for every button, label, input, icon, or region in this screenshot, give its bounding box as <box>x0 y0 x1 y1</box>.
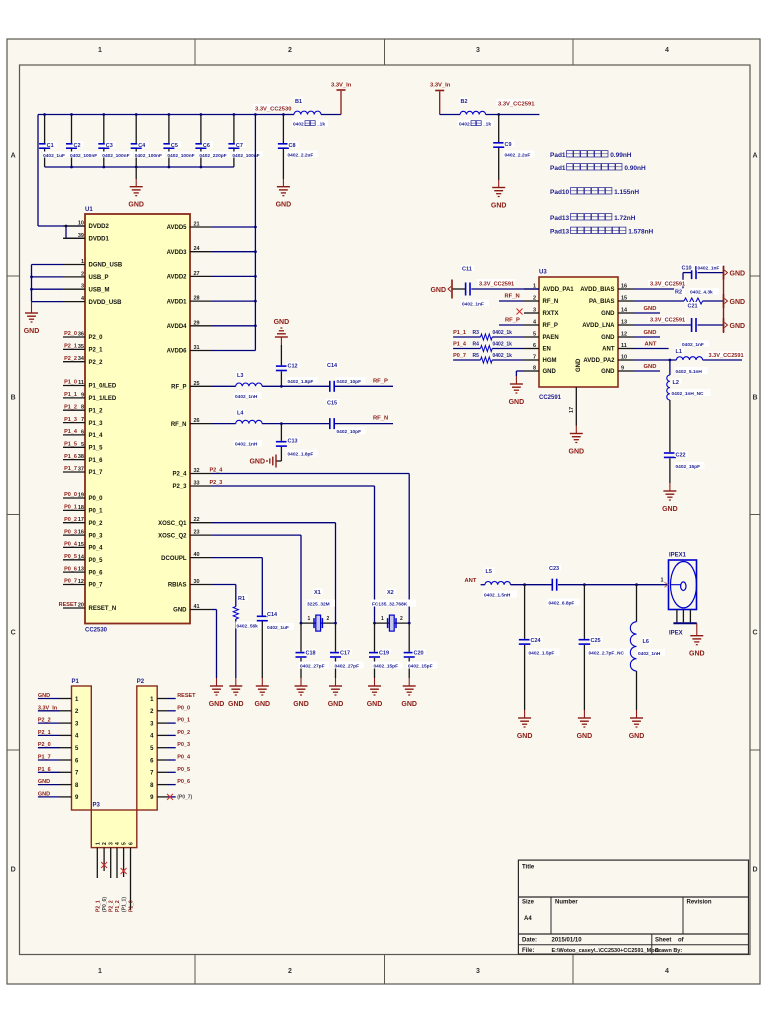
capacitor C22 <box>664 451 705 483</box>
svg-text:1: 1 <box>381 616 384 622</box>
capacitor C21 <box>681 302 723 348</box>
svg-text:P2_3: P2_3 <box>172 484 187 490</box>
svg-text:R1: R1 <box>238 596 245 602</box>
svg-text:0402_100nF: 0402_100nF <box>135 153 162 159</box>
svg-text:C7: C7 <box>236 143 243 149</box>
svg-text:2: 2 <box>327 616 330 622</box>
svg-text:P2_2: P2_2 <box>109 900 115 912</box>
svg-text:R4: R4 <box>473 342 480 348</box>
pin 3 P0_1 (P2) <box>157 718 190 724</box>
pin 15 P0_4 (U1 left) <box>63 542 103 552</box>
svg-text:Pad10: Pad10 <box>550 189 570 196</box>
ground (C20) <box>401 678 417 708</box>
svg-text:U3: U3 <box>539 270 547 276</box>
svg-text:DVDD2: DVDD2 <box>89 224 110 230</box>
svg-text:(P0_7): (P0_7) <box>177 794 192 800</box>
pin 34 P2_2 (U1 left) <box>63 356 103 366</box>
svg-text:11: 11 <box>78 380 84 386</box>
op-amp U3 CC2591 (IC body) <box>539 270 618 402</box>
svg-text:38: 38 <box>78 454 84 460</box>
svg-text:GND: GND <box>491 203 507 210</box>
svg-text:0402_5.1nH: 0402_5.1nH <box>676 369 703 375</box>
svg-text:B1: B1 <box>295 99 302 105</box>
resistor R1 <box>233 595 263 679</box>
capacitor C23 (series) <box>548 565 669 607</box>
pin 1 AVDD_PA1 (U3 left) <box>524 284 574 294</box>
svg-text:5: 5 <box>81 442 84 448</box>
svg-text:(P0_6): (P0_6) <box>102 897 108 912</box>
node 3.3V_CC2591 (pin1) <box>477 279 515 287</box>
svg-text:P2_4: P2_4 <box>210 468 224 474</box>
pin 10 AVDD_PA2 (U3 right) <box>583 355 633 365</box>
svg-text:0402_2.2uF: 0402_2.2uF <box>288 153 314 159</box>
svg-text:C1: C1 <box>47 143 54 149</box>
inductor L3 <box>234 372 262 400</box>
svg-text:AVDD_PA2: AVDD_PA2 <box>583 358 615 364</box>
svg-text:P0_4: P0_4 <box>177 755 191 761</box>
svg-text:C25: C25 <box>591 638 601 644</box>
wire RF_P (U3) <box>499 317 524 325</box>
svg-text:0402_1.5nH: 0402_1.5nH <box>484 593 511 599</box>
svg-text:26: 26 <box>194 418 200 424</box>
svg-text:C3: C3 <box>106 143 113 149</box>
pin 10 DVDD2 (U1 left) <box>63 221 110 231</box>
svg-text:1: 1 <box>81 259 84 265</box>
svg-text:0.90nH: 0.90nH <box>624 165 646 172</box>
pin 37 P1_7 (U1 left) <box>63 466 103 476</box>
pin 8 P1_2 (U1 left) <box>63 404 103 414</box>
svg-text:_1k: _1k <box>316 122 325 128</box>
svg-text:_1k: _1k <box>482 122 491 128</box>
svg-text:P3: P3 <box>93 803 101 809</box>
svg-text:C19: C19 <box>379 650 389 656</box>
svg-text:0402_100nF: 0402_100nF <box>167 153 194 159</box>
svg-text:P0_0: P0_0 <box>64 492 77 498</box>
svg-text:P1_6: P1_6 <box>38 767 51 773</box>
svg-text:EN: EN <box>543 347 551 353</box>
wire pin16 AVDD_BIAS to C10 <box>633 273 691 289</box>
pin 40 DCOUPL (U1 right) <box>161 552 212 562</box>
svg-text:P0_2: P0_2 <box>64 517 77 523</box>
svg-text:P1_2: P1_2 <box>64 404 77 410</box>
svg-text:P2_0: P2_0 <box>64 331 77 337</box>
ground (R1) <box>228 678 244 708</box>
svg-text:B: B <box>752 395 757 402</box>
svg-text:GND: GND <box>644 330 657 336</box>
ground port (C21) <box>724 318 746 332</box>
svg-text:GND: GND <box>601 335 615 341</box>
svg-text:GND: GND <box>644 364 657 370</box>
svg-text:P0_6: P0_6 <box>89 570 104 576</box>
svg-text:RF_N: RF_N <box>373 416 388 422</box>
wire AVDD vertical bus <box>212 113 257 350</box>
svg-text:P0_0: P0_0 <box>177 705 190 711</box>
svg-text:3: 3 <box>109 842 115 845</box>
svg-text:3.3V_CC2530: 3.3V_CC2530 <box>255 107 291 113</box>
ground (C19) <box>367 678 383 708</box>
svg-text:17: 17 <box>569 407 575 413</box>
svg-text:0402_1.8pF: 0402_1.8pF <box>288 452 314 458</box>
node 3.3V_CC2591 (L1) <box>707 352 745 360</box>
capacitor C17 <box>330 623 364 678</box>
pin 3 P2_2 (P1) <box>38 718 72 724</box>
svg-text:FC135_32.768K: FC135_32.768K <box>372 602 408 608</box>
svg-text:GND: GND <box>543 369 557 375</box>
resistor R2 <box>633 288 723 304</box>
svg-text:0402_1k: 0402_1k <box>493 342 513 348</box>
pin 4 P2_1 (P1) <box>38 730 72 736</box>
svg-text:AVDD4: AVDD4 <box>167 324 188 330</box>
svg-text:3: 3 <box>81 284 84 290</box>
svg-text:C17: C17 <box>340 650 350 656</box>
svg-text:DVDD1: DVDD1 <box>89 237 110 243</box>
capacitor C19 <box>369 623 403 678</box>
svg-text:GND: GND <box>255 701 271 708</box>
svg-text:P0_2: P0_2 <box>89 521 104 527</box>
svg-text:GND: GND <box>24 328 40 335</box>
pin 8 GND (P1) <box>38 779 72 785</box>
svg-text:DVDD_USB: DVDD_USB <box>89 300 123 306</box>
svg-text:0402_27pF: 0402_27pF <box>335 664 360 670</box>
svg-text:3225_32M: 3225_32M <box>307 602 330 608</box>
pin 2 USB_P (U1 left) <box>63 271 109 281</box>
svg-text:PAEN: PAEN <box>543 335 559 341</box>
svg-text:P0_6: P0_6 <box>177 779 190 785</box>
svg-text:6: 6 <box>129 842 135 845</box>
svg-text:B: B <box>11 395 16 402</box>
wire RF_N line <box>212 422 393 425</box>
svg-text:14: 14 <box>621 308 628 314</box>
svg-text:P0_7: P0_7 <box>64 579 77 585</box>
svg-text:P2_2: P2_2 <box>38 718 51 724</box>
svg-text:3.3V_CC2591: 3.3V_CC2591 <box>650 318 685 324</box>
svg-text:C14: C14 <box>267 612 278 618</box>
pin 15 PA_BIAS (U3 right) <box>589 296 633 306</box>
svg-text:0402_4.3k: 0402_4.3k <box>690 290 713 296</box>
svg-text:5: 5 <box>533 332 536 338</box>
pin 6 P1_4 (U1 left) <box>63 429 103 439</box>
svg-text:GND: GND <box>601 311 615 317</box>
svg-text:C13: C13 <box>288 438 298 444</box>
inductor L2 <box>667 360 711 452</box>
pin 11 P1_0/LED (U1 left) <box>63 380 117 390</box>
svg-text:P0_3: P0_3 <box>177 742 190 748</box>
capacitor C5 <box>163 113 198 167</box>
svg-text:C12: C12 <box>288 363 298 369</box>
svg-text:0.99nH: 0.99nH <box>610 152 632 159</box>
svg-text:18: 18 <box>78 505 84 511</box>
svg-text:15: 15 <box>621 296 627 302</box>
svg-text:2: 2 <box>81 271 84 277</box>
svg-text:1: 1 <box>660 578 663 584</box>
svg-text:L4: L4 <box>237 411 244 417</box>
svg-text:GND: GND <box>730 323 746 330</box>
svg-text:P2_1: P2_1 <box>89 348 104 354</box>
svg-text:of: of <box>678 938 685 944</box>
svg-text:GND: GND <box>328 701 344 708</box>
svg-text:0402_15pF: 0402_15pF <box>408 664 433 670</box>
wire XOSC_Q2 <box>212 535 301 623</box>
svg-text:DCOUPL: DCOUPL <box>161 556 187 562</box>
svg-text:C14: C14 <box>327 363 338 369</box>
pin 19 P0_0 (U1 left) <box>63 492 103 502</box>
wire pin13 AVDD_LNA <box>633 324 691 326</box>
inductor L5 <box>481 568 552 599</box>
svg-text:P1_3: P1_3 <box>64 417 77 423</box>
svg-text:41: 41 <box>194 604 200 610</box>
svg-text:C23: C23 <box>549 566 559 572</box>
capacitor C8 <box>278 115 318 180</box>
svg-text:D: D <box>752 867 757 874</box>
svg-text:3: 3 <box>476 968 480 975</box>
svg-text:File:: File: <box>522 948 534 954</box>
svg-text:0402_1nH: 0402_1nH <box>235 394 258 400</box>
svg-text:4: 4 <box>115 842 121 845</box>
svg-text:RF_P: RF_P <box>543 323 558 329</box>
svg-text:RF_N: RF_N <box>171 422 187 428</box>
svg-text:C: C <box>11 630 16 637</box>
pin 7 HGM (U3 left) <box>524 355 557 365</box>
inductor B2 (ferrite bead) <box>440 98 540 128</box>
svg-text:0402_1nH: 0402_1nH <box>235 442 258 448</box>
svg-text:P2_0: P2_0 <box>38 742 51 748</box>
capacitor C6 <box>195 113 230 167</box>
svg-text:P2_1: P2_1 <box>38 730 51 736</box>
pin 7 P0_5 (P2) <box>157 767 190 773</box>
svg-text:AVDD1: AVDD1 <box>167 299 188 305</box>
svg-text:0402_10pF: 0402_10pF <box>337 429 362 435</box>
connector P3 <box>91 803 137 848</box>
ground (C17) <box>328 678 344 708</box>
svg-text:AVDD6: AVDD6 <box>167 349 188 355</box>
svg-text:P1_4: P1_4 <box>453 342 467 348</box>
svg-text:R2: R2 <box>675 290 682 296</box>
svg-text:GND: GND <box>293 701 309 708</box>
pin 33 P2_3 (U1 right) <box>172 481 212 491</box>
pin 25 RF_P (U1 right) <box>171 381 212 391</box>
svg-text:0402_1nF: 0402_1nF <box>698 266 720 272</box>
crystal X1 <box>300 589 337 632</box>
pin 6 EN (U3 left) <box>524 343 551 353</box>
resistor R3 <box>453 330 524 340</box>
pin 7 P1_6 (P1) <box>38 767 72 773</box>
svg-text:C20: C20 <box>414 650 424 656</box>
svg-text:L3: L3 <box>237 373 243 379</box>
svg-text:P0_5: P0_5 <box>89 558 104 564</box>
svg-text:13: 13 <box>78 567 84 573</box>
svg-text:Number: Number <box>555 900 578 906</box>
svg-text:CC2591: CC2591 <box>539 395 562 401</box>
svg-text:0402_6.8pF: 0402_6.8pF <box>549 601 575 607</box>
capacitor C2 <box>66 113 101 167</box>
ground (U3 pin8) <box>509 376 525 406</box>
svg-text:P1_1: P1_1 <box>64 392 77 398</box>
svg-text:0402_1.8pF: 0402_1.8pF <box>288 379 314 385</box>
svg-text:C: C <box>752 630 757 637</box>
wire USB ground group <box>30 265 63 302</box>
svg-text:P1_6: P1_6 <box>89 458 104 464</box>
pin 6 P0_4 (P2) <box>157 755 191 761</box>
svg-text:27: 27 <box>194 271 200 277</box>
ground (C22) <box>662 483 678 513</box>
svg-text:31: 31 <box>194 345 200 351</box>
ground (IPEX shield) <box>689 623 705 658</box>
svg-text:2: 2 <box>288 968 292 975</box>
capacitor C4 <box>131 113 166 167</box>
svg-text:U1: U1 <box>85 207 93 213</box>
svg-text:C21: C21 <box>688 303 698 309</box>
svg-text:P2: P2 <box>137 679 145 685</box>
svg-text:AVDD_BIAS: AVDD_BIAS <box>580 287 614 293</box>
svg-text:3.3V_In: 3.3V_In <box>38 705 58 711</box>
svg-text:RESET: RESET <box>177 693 196 699</box>
power port 3.3V_In (left) <box>331 83 352 115</box>
svg-text:GND: GND <box>367 701 383 708</box>
svg-text:R3: R3 <box>473 330 480 336</box>
svg-text:AVDD3: AVDD3 <box>167 250 188 256</box>
svg-text:C15: C15 <box>327 400 337 406</box>
capacitor C18 <box>296 623 330 678</box>
svg-text:P1_7: P1_7 <box>38 755 51 761</box>
svg-text:ANT: ANT <box>602 347 615 353</box>
svg-text:21: 21 <box>194 222 200 228</box>
svg-text:0402_1nF: 0402_1nF <box>462 302 484 308</box>
pin 8 GND (U3 left) <box>524 366 557 376</box>
svg-text:X1: X1 <box>314 590 321 596</box>
svg-text:C10: C10 <box>682 266 692 272</box>
ground (C18) <box>293 678 309 708</box>
svg-text:P0_1: P0_1 <box>177 718 190 724</box>
wire RF_N (U3) <box>499 293 524 301</box>
svg-text:12: 12 <box>621 332 627 338</box>
svg-text:P2_2: P2_2 <box>64 356 77 362</box>
svg-text:P0_7: P0_7 <box>453 353 466 359</box>
svg-text:23: 23 <box>194 530 200 536</box>
svg-text:9: 9 <box>81 392 84 398</box>
pin 24 AVDD3 (U1 right) <box>167 246 212 256</box>
svg-text:35: 35 <box>78 344 84 350</box>
capacitor C7 <box>228 113 263 167</box>
pin 16 AVDD_BIAS (U3 right) <box>580 284 633 294</box>
svg-text:P1_5: P1_5 <box>64 442 77 448</box>
capacitor C12 <box>276 345 318 386</box>
pin 27 AVDD2 (U1 right) <box>167 271 212 281</box>
svg-text:2: 2 <box>400 616 403 622</box>
svg-text:9: 9 <box>621 366 624 372</box>
svg-text:P0_7: P0_7 <box>89 583 104 589</box>
svg-text:L5: L5 <box>486 569 492 575</box>
power port 3.3V_In (right) <box>430 83 451 115</box>
svg-text:22: 22 <box>194 517 200 523</box>
svg-text:IPEX1: IPEX1 <box>669 553 687 559</box>
node GND (pin9) <box>633 364 660 371</box>
svg-text:HGM: HGM <box>543 358 557 364</box>
svg-text:GND: GND <box>173 608 187 614</box>
svg-text:XOSC_Q1: XOSC_Q1 <box>158 521 187 527</box>
wire RF_P line <box>212 385 393 388</box>
svg-text:P0_1: P0_1 <box>64 505 77 511</box>
svg-text:GND: GND <box>276 202 292 209</box>
pin 5 PAEN (U3 left) <box>524 332 559 342</box>
pin 3 USB_M (U1 left) <box>63 284 110 294</box>
svg-text:3.3V_CC2591: 3.3V_CC2591 <box>498 102 535 108</box>
wire GND pin41 <box>212 610 217 679</box>
pin 2 3.3V_In (P1) <box>38 705 72 711</box>
pin 9 GND (P1) <box>38 791 72 797</box>
pin 1 GND (P1) <box>38 693 72 699</box>
capacitor C25 <box>579 585 632 710</box>
svg-text:6: 6 <box>81 429 84 435</box>
crystal X2 <box>371 589 416 632</box>
svg-text:6: 6 <box>533 343 536 349</box>
svg-text:P1_3: P1_3 <box>89 421 104 427</box>
svg-text:28: 28 <box>194 296 200 302</box>
svg-text:GND: GND <box>517 733 533 740</box>
pin 22 XOSC_Q1 (U1 right) <box>158 517 212 527</box>
pin 28 AVDD1 (U1 right) <box>167 296 212 306</box>
svg-text:0402_1uF: 0402_1uF <box>43 153 65 159</box>
inductor L1 <box>633 348 742 376</box>
op-amp U1 CC2530 (IC body) <box>85 207 190 634</box>
svg-text:2: 2 <box>533 296 536 302</box>
svg-text:Pad1: Pad1 <box>550 165 566 172</box>
svg-text:ANT: ANT <box>645 342 657 348</box>
pin 4 DVDD_USB (U1 left) <box>63 296 122 306</box>
svg-text:1: 1 <box>98 47 102 54</box>
svg-text:CC2530: CC2530 <box>85 628 108 634</box>
wire DCOUPL <box>212 558 262 616</box>
pin 35 P2_1 (U1 left) <box>63 344 103 354</box>
svg-text:37: 37 <box>78 467 84 473</box>
svg-text:40: 40 <box>194 552 200 558</box>
capacitor C10 <box>681 264 725 279</box>
svg-text:P0_3: P0_3 <box>64 529 77 535</box>
svg-text:0402_1k: 0402_1k <box>493 330 513 336</box>
svg-text:33: 33 <box>194 481 200 487</box>
pin 2 (P0_6) (P3) <box>101 848 108 912</box>
svg-text:GND: GND <box>274 319 290 326</box>
svg-text:USB_P: USB_P <box>89 275 109 281</box>
svg-text:RF_N: RF_N <box>543 299 559 305</box>
svg-text:P0_6: P0_6 <box>64 566 77 572</box>
svg-text:Date:: Date: <box>522 938 537 944</box>
svg-text:RESET_N: RESET_N <box>89 606 117 612</box>
svg-text:P0_4: P0_4 <box>89 546 104 552</box>
pin 11 ANT (U3 right) <box>602 343 633 353</box>
svg-text:XOSC_Q2: XOSC_Q2 <box>158 533 187 539</box>
svg-text:3: 3 <box>533 308 536 314</box>
svg-text:C5: C5 <box>171 143 178 149</box>
svg-text:GND: GND <box>569 449 585 456</box>
svg-text:GND: GND <box>689 651 705 658</box>
pin 5 P2_0 (P1) <box>38 742 72 748</box>
node 3.3V_CC2530 <box>253 104 291 113</box>
ground port (C11 left) <box>430 280 452 299</box>
pin 1 RESET (P2) <box>157 693 196 699</box>
pin 6 P1_0 (P3) <box>129 848 135 912</box>
pin 13 P0_6 (U1 left) <box>63 566 103 576</box>
svg-text:USB_M: USB_M <box>89 287 110 293</box>
svg-text:IPEX: IPEX <box>669 631 683 637</box>
svg-text:29: 29 <box>194 320 200 326</box>
svg-text:AVDD_PA1: AVDD_PA1 <box>543 287 575 293</box>
svg-text:P1_5: P1_5 <box>89 446 104 452</box>
pin 32 P2_4 (U1 right) <box>172 468 212 478</box>
pin 4 RF_P (U3 left) <box>524 320 558 330</box>
svg-text:8: 8 <box>533 366 536 372</box>
wire XOSC_Q1 <box>212 523 336 623</box>
svg-text:Title: Title <box>522 865 535 871</box>
